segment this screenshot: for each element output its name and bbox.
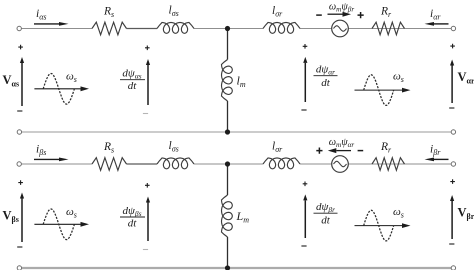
polarity plus (source right): [358, 12, 364, 18]
polarity plus (dψ_αs/dt top): [145, 46, 150, 51]
inductor l_σs (alpha stator leakage): [157, 23, 194, 34]
svg-text:dt: dt: [128, 80, 138, 92]
polarity minus (source left): [316, 14, 322, 16]
node: stator terminal bottom-left (beta): [17, 266, 21, 270]
node: rotor terminal top-right (alpha): [451, 26, 455, 30]
inductor L_m (magnetizing, alpha): [222, 60, 233, 102]
junction: shunt bottom node (alpha): [225, 129, 230, 134]
wire: top rail of alpha circuit: [21, 28, 451, 30]
polarity plus (V_αs top): [18, 45, 23, 50]
polarity plus (dψ_βs/dt top): [145, 183, 150, 188]
voltage arrow V_βs: [21, 199, 23, 243]
svg-text:dt: dt: [128, 218, 138, 230]
symbol: stator frequency sine with arrow, ω_s (alpha): [34, 88, 80, 90]
voltage arrow V_βr: [451, 201, 453, 239]
polarity plus (V_αr top): [450, 44, 455, 49]
polarity plus (dψ_αr/dt top): [303, 44, 308, 49]
inductor l_σr (beta rotor leakage): [263, 158, 300, 169]
wire: magnetizing shunt branch (beta): [227, 164, 229, 268]
current arrow i_αr (into circuit, leftward): [434, 23, 449, 25]
polarity plus (dψ_βr/dt top): [303, 182, 308, 187]
inductor l_σr (alpha rotor leakage): [263, 23, 300, 34]
svg-text:dt: dt: [321, 215, 331, 227]
node: rotor terminal bottom-right (beta): [451, 266, 455, 270]
node: stator terminal top-left (alpha): [17, 26, 21, 30]
resistor R_s (alpha stator): [92, 22, 127, 35]
symbol: stator frequency sine with arrow, ω_s (beta): [34, 223, 80, 225]
arrow over source (leftward): [336, 150, 351, 152]
polarity minus (V_βs bottom): [17, 246, 22, 248]
junction: shunt top node (alpha): [225, 26, 230, 31]
current arrow i_βr (into circuit, leftward): [434, 158, 449, 160]
arrow for dψ_βs/dt: [147, 203, 149, 242]
inductor L_m (magnetizing, beta): [222, 195, 233, 237]
source: speed-EMF ω_m·ψ_αr (beta rotor branch): [332, 156, 349, 173]
node: stator terminal bottom-left (alpha): [17, 130, 21, 134]
resistor R_s (beta stator): [92, 158, 127, 171]
junction: shunt bottom node (beta): [225, 265, 230, 270]
arrow over source (rightward): [328, 13, 343, 15]
source: speed-EMF ω_m·ψ_βr (alpha rotor branch): [332, 20, 349, 37]
symbol: frequency sine with arrow, ω_s right (alpha): [355, 89, 403, 91]
polarity plus (V_βr top): [450, 179, 455, 184]
voltage arrow V_αs: [21, 63, 23, 106]
polarity plus (V_βs top): [18, 180, 23, 185]
voltage arrow V_αr: [451, 66, 453, 104]
polarity minus (V_αs bottom): [17, 110, 22, 112]
arrow for dψ_βr/dt: [304, 200, 306, 238]
symbol: frequency sine with arrow, ω_s right (beta): [355, 225, 403, 227]
wire: magnetizing shunt branch (alpha): [227, 29, 229, 133]
polarity plus (source left): [316, 148, 322, 154]
current arrow i_αs: [34, 23, 59, 25]
svg-text:dt: dt: [321, 77, 331, 89]
junction: shunt top node (beta): [225, 161, 230, 166]
node: stator terminal top-left (beta): [17, 162, 21, 166]
arrow for dψ_αr/dt: [304, 63, 306, 102]
polarity minus (V_αr bottom): [449, 107, 454, 109]
inductor l_σs (beta stator leakage): [157, 158, 194, 169]
arrow for dψ_αs/dt: [147, 65, 149, 105]
resistor R_r (alpha rotor): [372, 22, 405, 35]
node: rotor terminal bottom-right (alpha): [451, 130, 455, 134]
polarity minus (source right): [358, 150, 364, 152]
polarity minus (dψ_αs/dt bottom, faint): [143, 113, 148, 115]
polarity minus (dψ_βs/dt bottom, faint): [143, 249, 148, 251]
current arrow i_βs: [34, 158, 59, 160]
polarity minus (V_βr bottom): [449, 243, 454, 245]
wire: bottom rail of alpha circuit: [22, 131, 452, 133]
resistor R_r (beta rotor): [372, 158, 405, 171]
wire: bottom rail of beta circuit: [22, 267, 452, 269]
polarity minus (dψ_βr/dt bottom): [301, 245, 306, 247]
wire: top rail of beta circuit: [21, 163, 451, 165]
polarity minus (dψ_αr/dt bottom): [301, 109, 306, 111]
node: rotor terminal top-right (beta): [451, 162, 455, 166]
